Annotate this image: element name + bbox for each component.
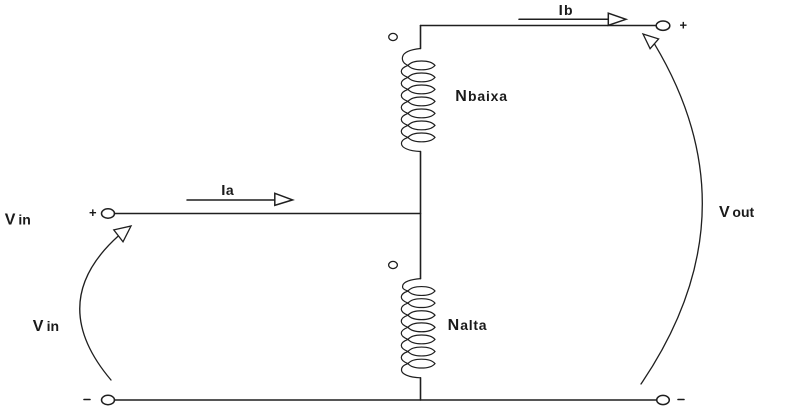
arc Vin voltage arrow: [80, 226, 131, 380]
label - output: [678, 399, 684, 401]
terminal input -: [102, 395, 115, 404]
svg-text:Ia: Ia: [221, 182, 234, 199]
svg-text:Vout: Vout: [719, 204, 755, 221]
polarity dot lower winding: [389, 261, 398, 268]
inductor Nalta (lower winding): [401, 279, 435, 378]
wire vertical winding spine: [420, 26, 422, 401]
terminal output -: [657, 395, 670, 404]
svg-text:Vin: Vin: [5, 212, 31, 229]
label Ib: [559, 2, 573, 19]
label Ia: [221, 182, 234, 199]
label Nalta: [448, 317, 488, 334]
inductor Nbaixa (upper winding): [401, 49, 435, 152]
arc Vout voltage arrow: [641, 34, 702, 384]
svg-text:Ib: Ib: [559, 2, 573, 19]
svg-text:Nalta: Nalta: [448, 317, 488, 334]
svg-text:+: +: [89, 205, 97, 220]
label + input: [89, 205, 97, 220]
label Vin (arc): [33, 318, 59, 335]
svg-text:Nbaixa: Nbaixa: [455, 88, 508, 105]
label Nbaixa: [455, 88, 508, 105]
arrow Ib current: [519, 13, 626, 25]
terminal input +: [102, 209, 115, 218]
svg-text:Vin: Vin: [33, 318, 59, 335]
label Vout: [719, 204, 755, 221]
arrow Ia current: [187, 193, 293, 205]
polarity dot upper winding: [389, 33, 398, 40]
wire input from Vin terminal to center tap: [115, 213, 421, 215]
label - input: [84, 399, 90, 401]
terminal output +: [656, 21, 670, 30]
label Vin (terminal): [5, 212, 31, 229]
wire bottom return: [115, 399, 657, 401]
wire top from transformer tap to output terminal: [421, 25, 657, 27]
svg-text:+: +: [680, 18, 688, 33]
label + output: [680, 18, 688, 33]
